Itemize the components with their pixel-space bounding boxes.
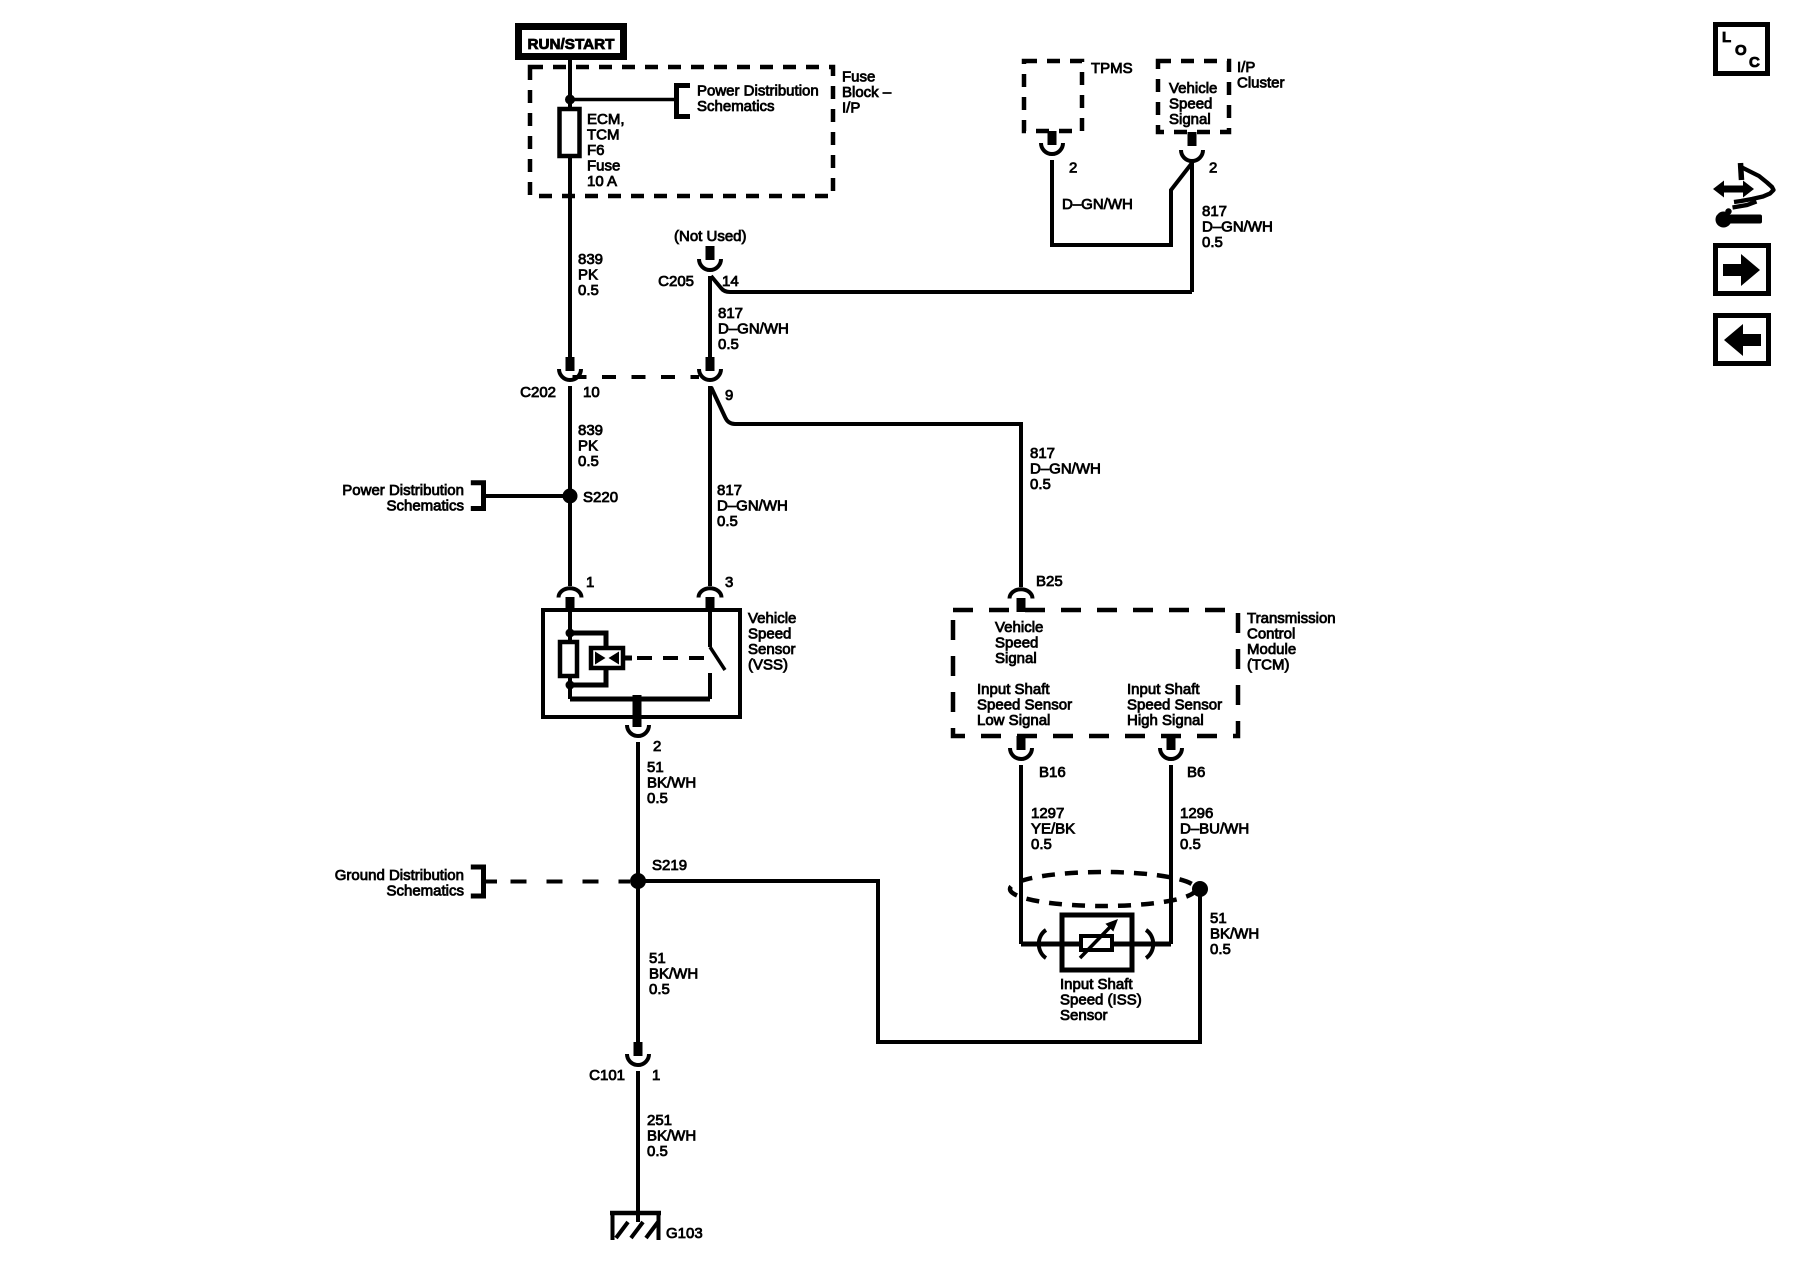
svg-text:Sensor: Sensor: [748, 641, 796, 658]
svg-text:S220: S220: [583, 489, 618, 506]
svg-text:D–GN/WH: D–GN/WH: [1030, 461, 1101, 478]
svg-text:10 A: 10 A: [587, 173, 617, 190]
svg-text:TPMS: TPMS: [1091, 60, 1133, 77]
svg-text:1: 1: [586, 574, 594, 591]
svg-text:C205: C205: [658, 273, 694, 290]
svg-text:Speed: Speed: [748, 626, 791, 643]
svg-text:Signal: Signal: [1169, 111, 1211, 128]
svg-text:Block –: Block –: [842, 84, 892, 101]
svg-text:YE/BK: YE/BK: [1031, 821, 1075, 838]
svg-text:Control: Control: [1247, 626, 1295, 643]
svg-text:1: 1: [652, 1067, 660, 1084]
svg-text:D–BU/WH: D–BU/WH: [1180, 821, 1249, 838]
svg-text:3: 3: [725, 574, 733, 591]
svg-text:Fuse: Fuse: [842, 69, 875, 86]
svg-text:Sensor: Sensor: [1060, 1007, 1108, 1024]
svg-text:(Not Used): (Not Used): [674, 228, 747, 245]
svg-text:PK: PK: [578, 438, 598, 455]
svg-text:839: 839: [578, 422, 603, 439]
svg-text:1296: 1296: [1180, 805, 1213, 822]
svg-text:Speed: Speed: [995, 635, 1038, 652]
svg-text:B16: B16: [1039, 764, 1066, 781]
svg-text:0.5: 0.5: [717, 513, 738, 530]
svg-text:Schematics: Schematics: [386, 498, 464, 515]
svg-text:D–GN/WH: D–GN/WH: [1062, 196, 1133, 213]
svg-text:0.5: 0.5: [647, 1143, 668, 1160]
svg-text:Ground Distribution: Ground Distribution: [335, 867, 464, 884]
svg-text:2: 2: [1069, 160, 1077, 177]
svg-text:0.5: 0.5: [649, 981, 670, 998]
svg-text:839: 839: [578, 251, 603, 268]
svg-text:Transmission: Transmission: [1247, 610, 1336, 627]
svg-text:D–GN/WH: D–GN/WH: [718, 321, 789, 338]
svg-text:0.5: 0.5: [578, 453, 599, 470]
svg-text:Input Shaft: Input Shaft: [977, 681, 1050, 698]
svg-text:BK/WH: BK/WH: [1210, 926, 1259, 943]
svg-text:51: 51: [1210, 910, 1227, 927]
svg-text:0.5: 0.5: [1030, 476, 1051, 493]
svg-text:D–GN/WH: D–GN/WH: [717, 498, 788, 515]
svg-text:F6: F6: [587, 142, 605, 159]
svg-text:2: 2: [1209, 160, 1217, 177]
svg-text:817: 817: [1030, 445, 1055, 462]
svg-text:PK: PK: [578, 267, 598, 284]
svg-text:Speed (ISS): Speed (ISS): [1060, 992, 1142, 1009]
svg-text:Schematics: Schematics: [697, 98, 775, 115]
svg-text:D–GN/WH: D–GN/WH: [1202, 219, 1273, 236]
svg-text:I/P: I/P: [842, 100, 860, 117]
svg-text:I/P: I/P: [1237, 59, 1255, 76]
svg-text:Low Signal: Low Signal: [977, 712, 1050, 729]
svg-text:51: 51: [647, 759, 664, 776]
svg-text:Module: Module: [1247, 641, 1296, 658]
svg-text:L: L: [1722, 29, 1731, 46]
svg-text:Input Shaft: Input Shaft: [1127, 681, 1200, 698]
svg-text:0.5: 0.5: [1180, 836, 1201, 853]
svg-text:0.5: 0.5: [1210, 941, 1231, 958]
svg-text:1297: 1297: [1031, 805, 1064, 822]
svg-text:817: 817: [1202, 203, 1227, 220]
svg-text:ECM,: ECM,: [587, 111, 625, 128]
svg-text:0.5: 0.5: [1202, 234, 1223, 251]
svg-text:Speed: Speed: [1169, 96, 1212, 113]
svg-text:O: O: [1735, 42, 1747, 59]
svg-text:B25: B25: [1036, 573, 1063, 590]
svg-text:High Signal: High Signal: [1127, 712, 1204, 729]
svg-text:C: C: [1749, 54, 1760, 71]
svg-text:TCM: TCM: [587, 127, 620, 144]
svg-text:Speed Sensor: Speed Sensor: [1127, 697, 1222, 714]
svg-text:BK/WH: BK/WH: [647, 1128, 696, 1145]
svg-text:0.5: 0.5: [647, 790, 668, 807]
svg-text:B6: B6: [1187, 764, 1205, 781]
svg-text:0.5: 0.5: [1031, 836, 1052, 853]
svg-text:0.5: 0.5: [578, 282, 599, 299]
svg-text:Signal: Signal: [995, 650, 1037, 667]
svg-text:Input Shaft: Input Shaft: [1060, 976, 1133, 993]
svg-text:S219: S219: [652, 857, 687, 874]
svg-text:(TCM): (TCM): [1247, 657, 1289, 674]
svg-text:251: 251: [647, 1112, 672, 1129]
svg-text:Fuse: Fuse: [587, 158, 620, 175]
svg-text:10: 10: [583, 384, 600, 401]
svg-text:Speed Sensor: Speed Sensor: [977, 697, 1072, 714]
svg-text:2: 2: [653, 738, 661, 755]
svg-text:Schematics: Schematics: [386, 883, 464, 900]
svg-text:0.5: 0.5: [718, 336, 739, 353]
svg-text:Vehicle: Vehicle: [995, 619, 1043, 636]
svg-text:(VSS): (VSS): [748, 657, 788, 674]
svg-text:817: 817: [717, 482, 742, 499]
svg-text:C101: C101: [589, 1067, 625, 1084]
svg-text:RUN/START: RUN/START: [528, 36, 615, 53]
svg-text:817: 817: [718, 305, 743, 322]
svg-text:G103: G103: [666, 1225, 703, 1242]
svg-text:Power Distribution: Power Distribution: [697, 83, 819, 100]
svg-text:Power Distribution: Power Distribution: [342, 482, 464, 499]
svg-text:C202: C202: [520, 384, 556, 401]
svg-text:Vehicle: Vehicle: [1169, 80, 1217, 97]
svg-text:51: 51: [649, 950, 666, 967]
svg-text:Cluster: Cluster: [1237, 75, 1285, 92]
svg-text:BK/WH: BK/WH: [649, 966, 698, 983]
svg-text:9: 9: [725, 387, 733, 404]
svg-text:14: 14: [722, 273, 739, 290]
svg-text:BK/WH: BK/WH: [647, 775, 696, 792]
svg-text:Vehicle: Vehicle: [748, 610, 796, 627]
